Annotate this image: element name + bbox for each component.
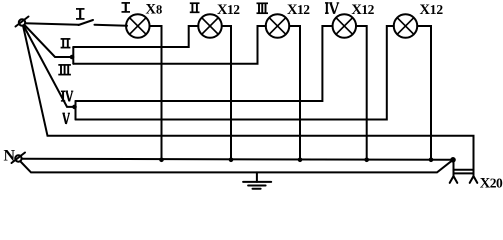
connector X20 rails [454,169,474,171]
node lamp V on bus [429,158,434,163]
ground lead [256,172,258,182]
wire from switch to lamp I [95,25,128,26]
svg-text:X20: X20 [480,176,503,192]
svg-text:X12: X12 [217,2,240,18]
wire neutral bus 1 [22,159,453,160]
wire lamp I right leg [150,26,162,160]
label switch I [76,9,85,19]
label line III [58,65,71,75]
wire line I from phase terminal to switch [25,23,79,25]
label lamp4 numeral IV [325,3,339,14]
node lamp II on bus [229,158,234,163]
wire lamp IV right leg [356,26,367,160]
wire neutral bus 2 [21,160,454,173]
lamp IV (X12) [333,14,357,38]
svg-text:N: N [4,148,16,165]
label line V [62,113,70,124]
label lamp3 numeral III [257,3,269,13]
wire ray to IV/V junction [24,26,75,107]
connector X20 left contact [450,176,458,183]
wire lamp II right leg [222,26,231,160]
wire ray to II/III junction [25,25,72,57]
switch I blade [79,20,94,25]
wire line V [76,26,394,120]
wire phase feed to X20 [23,26,474,176]
junction II/III vertical [72,47,74,64]
svg-text:X12: X12 [420,2,444,18]
neutral terminal N [12,153,26,164]
lamp III (X12) [266,14,290,38]
svg-text:X12: X12 [287,2,310,18]
lamp I (X8) [126,14,150,38]
junction IV/V vertical [75,101,77,120]
wire lamp V right leg [417,26,431,160]
ground [243,182,271,189]
node bus junction at X20 [450,157,456,163]
lamp V (X12) [394,14,418,38]
connector X20 right contact [470,176,478,183]
phase terminal [16,17,29,27]
svg-text:X12: X12 [351,2,374,18]
wire lamp III right leg [289,26,300,160]
svg-text:X8: X8 [146,2,163,18]
wire X20 left stem [453,160,455,176]
node junction IV/V [72,105,77,110]
node junction II/III [70,55,75,60]
label line IV [61,91,73,101]
wire line II [73,26,198,47]
node lamp III on bus [298,158,303,163]
lamp II (X12) [198,14,222,38]
label lamp1 numeral I [122,3,131,12]
label line II [61,39,71,48]
label lamp2 numeral II [190,3,200,12]
wire line III [73,26,266,64]
node lamp IV on bus [364,158,369,163]
node lamp I on bus [159,158,164,163]
wire line IV [76,26,333,101]
